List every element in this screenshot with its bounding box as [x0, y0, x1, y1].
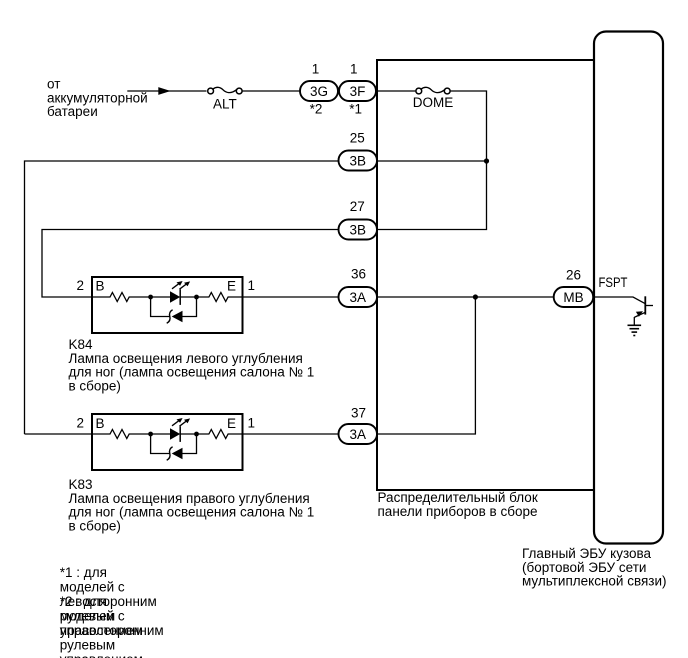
wire connector 3B 25 to junction — [377, 160, 487, 162]
svg-text:моделей с: моделей с — [60, 580, 125, 595]
svg-text:*1: *1 — [349, 102, 362, 117]
connector 3B pin 25 — [339, 151, 378, 171]
wire lamp K84 to connector 3A 36 — [243, 296, 339, 298]
LED light arrows K84 — [172, 283, 180, 289]
svg-text:3F: 3F — [350, 84, 366, 99]
svg-text:рулевым: рулевым — [60, 638, 115, 653]
svg-text:от: от — [47, 77, 60, 92]
junction node K83 left — [148, 432, 153, 437]
svg-text:(бортовой ЭБУ сети: (бортовой ЭБУ сети — [522, 560, 646, 575]
svg-text:1: 1 — [248, 416, 256, 431]
wire fuse DOME to vertical drop — [450, 91, 486, 161]
zener diode K83 lower branch — [151, 434, 197, 460]
svg-text:моделей с: моделей с — [60, 609, 125, 624]
connector 3G — [300, 81, 338, 101]
svg-text:в сборе): в сборе) — [69, 518, 121, 533]
junction dot row 36 — [473, 294, 478, 299]
svg-text:для ног (лампа освещения салон: для ног (лампа освещения салона № 1 — [69, 365, 315, 380]
wire left vertical to lamp K83 — [25, 433, 93, 435]
svg-text:ALT: ALT — [213, 97, 237, 112]
wire resistor K84 right — [197, 293, 243, 302]
fuse DOME — [416, 87, 450, 94]
connector 3B pin 27 — [339, 220, 378, 240]
LED light arrows K83 — [172, 420, 180, 426]
svg-text:1: 1 — [312, 62, 320, 77]
junction node K84 right — [194, 295, 199, 300]
svg-text:36: 36 — [351, 267, 366, 282]
svg-text:в сборе): в сборе) — [69, 378, 121, 393]
svg-text:2: 2 — [76, 278, 84, 293]
svg-text:мультиплексной связи): мультиплексной связи) — [522, 574, 667, 589]
svg-text:*2 : для: *2 : для — [60, 594, 107, 609]
svg-text:27: 27 — [350, 199, 365, 214]
svg-text:1: 1 — [350, 62, 358, 77]
svg-text:панели приборов в сборе: панели приборов в сборе — [378, 504, 538, 519]
svg-text:управлением: управлением — [60, 652, 143, 658]
fuse ALT — [208, 87, 242, 94]
svg-text:B: B — [96, 416, 105, 431]
svg-text:1: 1 — [248, 278, 256, 293]
wire vertical drop to row 27 — [377, 161, 487, 230]
svg-text:Лампа освещения правого углубл: Лампа освещения правого углубления — [69, 491, 310, 506]
connector 3F — [339, 81, 376, 101]
svg-text:аккумуляторной: аккумуляторной — [47, 90, 148, 105]
svg-text:K83: K83 — [69, 477, 93, 492]
wire lamp K83 to connector 3A 37 — [243, 433, 339, 435]
svg-text:FSPT: FSPT — [599, 275, 628, 290]
svg-text:25: 25 — [350, 130, 365, 145]
lamp K84 (left footwell illumination) — [92, 277, 243, 333]
svg-text:MB: MB — [563, 290, 583, 305]
svg-text:26: 26 — [566, 268, 581, 283]
wire fuse ALT to connector 3G — [242, 90, 300, 92]
resistor K83 left — [92, 430, 151, 439]
svg-text:Главный ЭБУ кузова: Главный ЭБУ кузова — [522, 546, 652, 561]
connector 3A pin 37 — [339, 424, 378, 444]
svg-text:Лампа освещения левого углубле: Лампа освещения левого углубления — [69, 351, 303, 366]
svg-text:3A: 3A — [349, 290, 366, 305]
arrow battery direction — [158, 87, 170, 95]
svg-text:*1 : для: *1 : для — [60, 565, 107, 580]
lamp K83 (right footwell illumination) — [92, 414, 243, 470]
wire connector 3A 36 to connector MB — [377, 296, 554, 298]
svg-text:3B: 3B — [349, 222, 366, 237]
ground — [628, 325, 642, 335]
junction node K83 right — [194, 432, 199, 437]
svg-text:батареи: батареи — [47, 104, 98, 119]
connector MB pin 26 — [554, 287, 594, 307]
svg-text:3G: 3G — [310, 84, 328, 99]
svg-text:для ног (лампа освещения салон: для ног (лампа освещения салона № 1 — [69, 505, 315, 520]
svg-text:E: E — [227, 279, 236, 294]
LED D1 K84 — [151, 281, 197, 305]
svg-text:Распределительный блок: Распределительный блок — [378, 490, 538, 505]
svg-text:E: E — [227, 416, 236, 431]
svg-text:3A: 3A — [349, 427, 366, 442]
transistor Q1 FSPT — [634, 296, 653, 325]
svg-text:*2: *2 — [310, 102, 323, 117]
resistor K84 left — [92, 293, 151, 302]
wire row 25 left run — [25, 161, 339, 434]
junction dot row 25 — [484, 158, 489, 163]
svg-text:B: B — [96, 279, 105, 294]
LED D1 K83 — [151, 418, 197, 442]
svg-text:K84: K84 — [69, 337, 94, 352]
svg-text:2: 2 — [76, 416, 84, 431]
wire connector 3F to fuse DOME — [376, 90, 416, 92]
svg-text:правосторонним: правосторонним — [60, 623, 164, 638]
wire FSPT inside ECU — [593, 297, 645, 304]
svg-text:37: 37 — [351, 405, 366, 420]
svg-text:3B: 3B — [349, 153, 366, 168]
zener diode K84 lower branch — [151, 297, 197, 323]
junction node K84 left — [148, 295, 153, 300]
connector 3A pin 36 — [339, 287, 378, 307]
ECU U1 (Главный ЭБУ кузова) — [594, 32, 663, 544]
wire row 27 left run — [42, 230, 339, 298]
wire resistor K83 right — [197, 430, 243, 439]
junction block U2 (Распределительный блок панели приборов) — [377, 60, 594, 490]
wire battery feed to fuse ALT — [127, 90, 206, 92]
wire junction 36 down to row 37 — [377, 297, 475, 434]
svg-text:DOME: DOME — [413, 95, 454, 110]
